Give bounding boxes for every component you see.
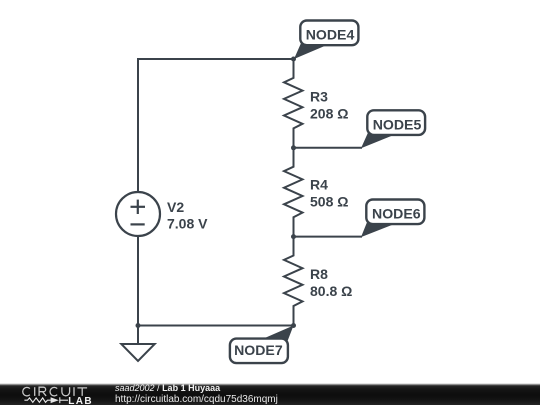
svg-text:80.8 Ω: 80.8 Ω — [310, 283, 352, 299]
svg-text:208 Ω: 208 Ω — [310, 106, 348, 122]
svg-text:NODE6: NODE6 — [372, 206, 421, 222]
svg-text:NODE4: NODE4 — [306, 27, 355, 43]
svg-text:508 Ω: 508 Ω — [310, 193, 348, 209]
svg-text:NODE7: NODE7 — [234, 342, 283, 358]
svg-text:R8: R8 — [310, 266, 328, 282]
svg-text:R4: R4 — [310, 177, 328, 193]
svg-text:LAB: LAB — [68, 396, 93, 405]
svg-text:V2: V2 — [167, 199, 184, 215]
svg-text:7.08 V: 7.08 V — [167, 216, 208, 232]
svg-text:R3: R3 — [310, 89, 328, 105]
svg-text:NODE5: NODE5 — [373, 117, 422, 133]
